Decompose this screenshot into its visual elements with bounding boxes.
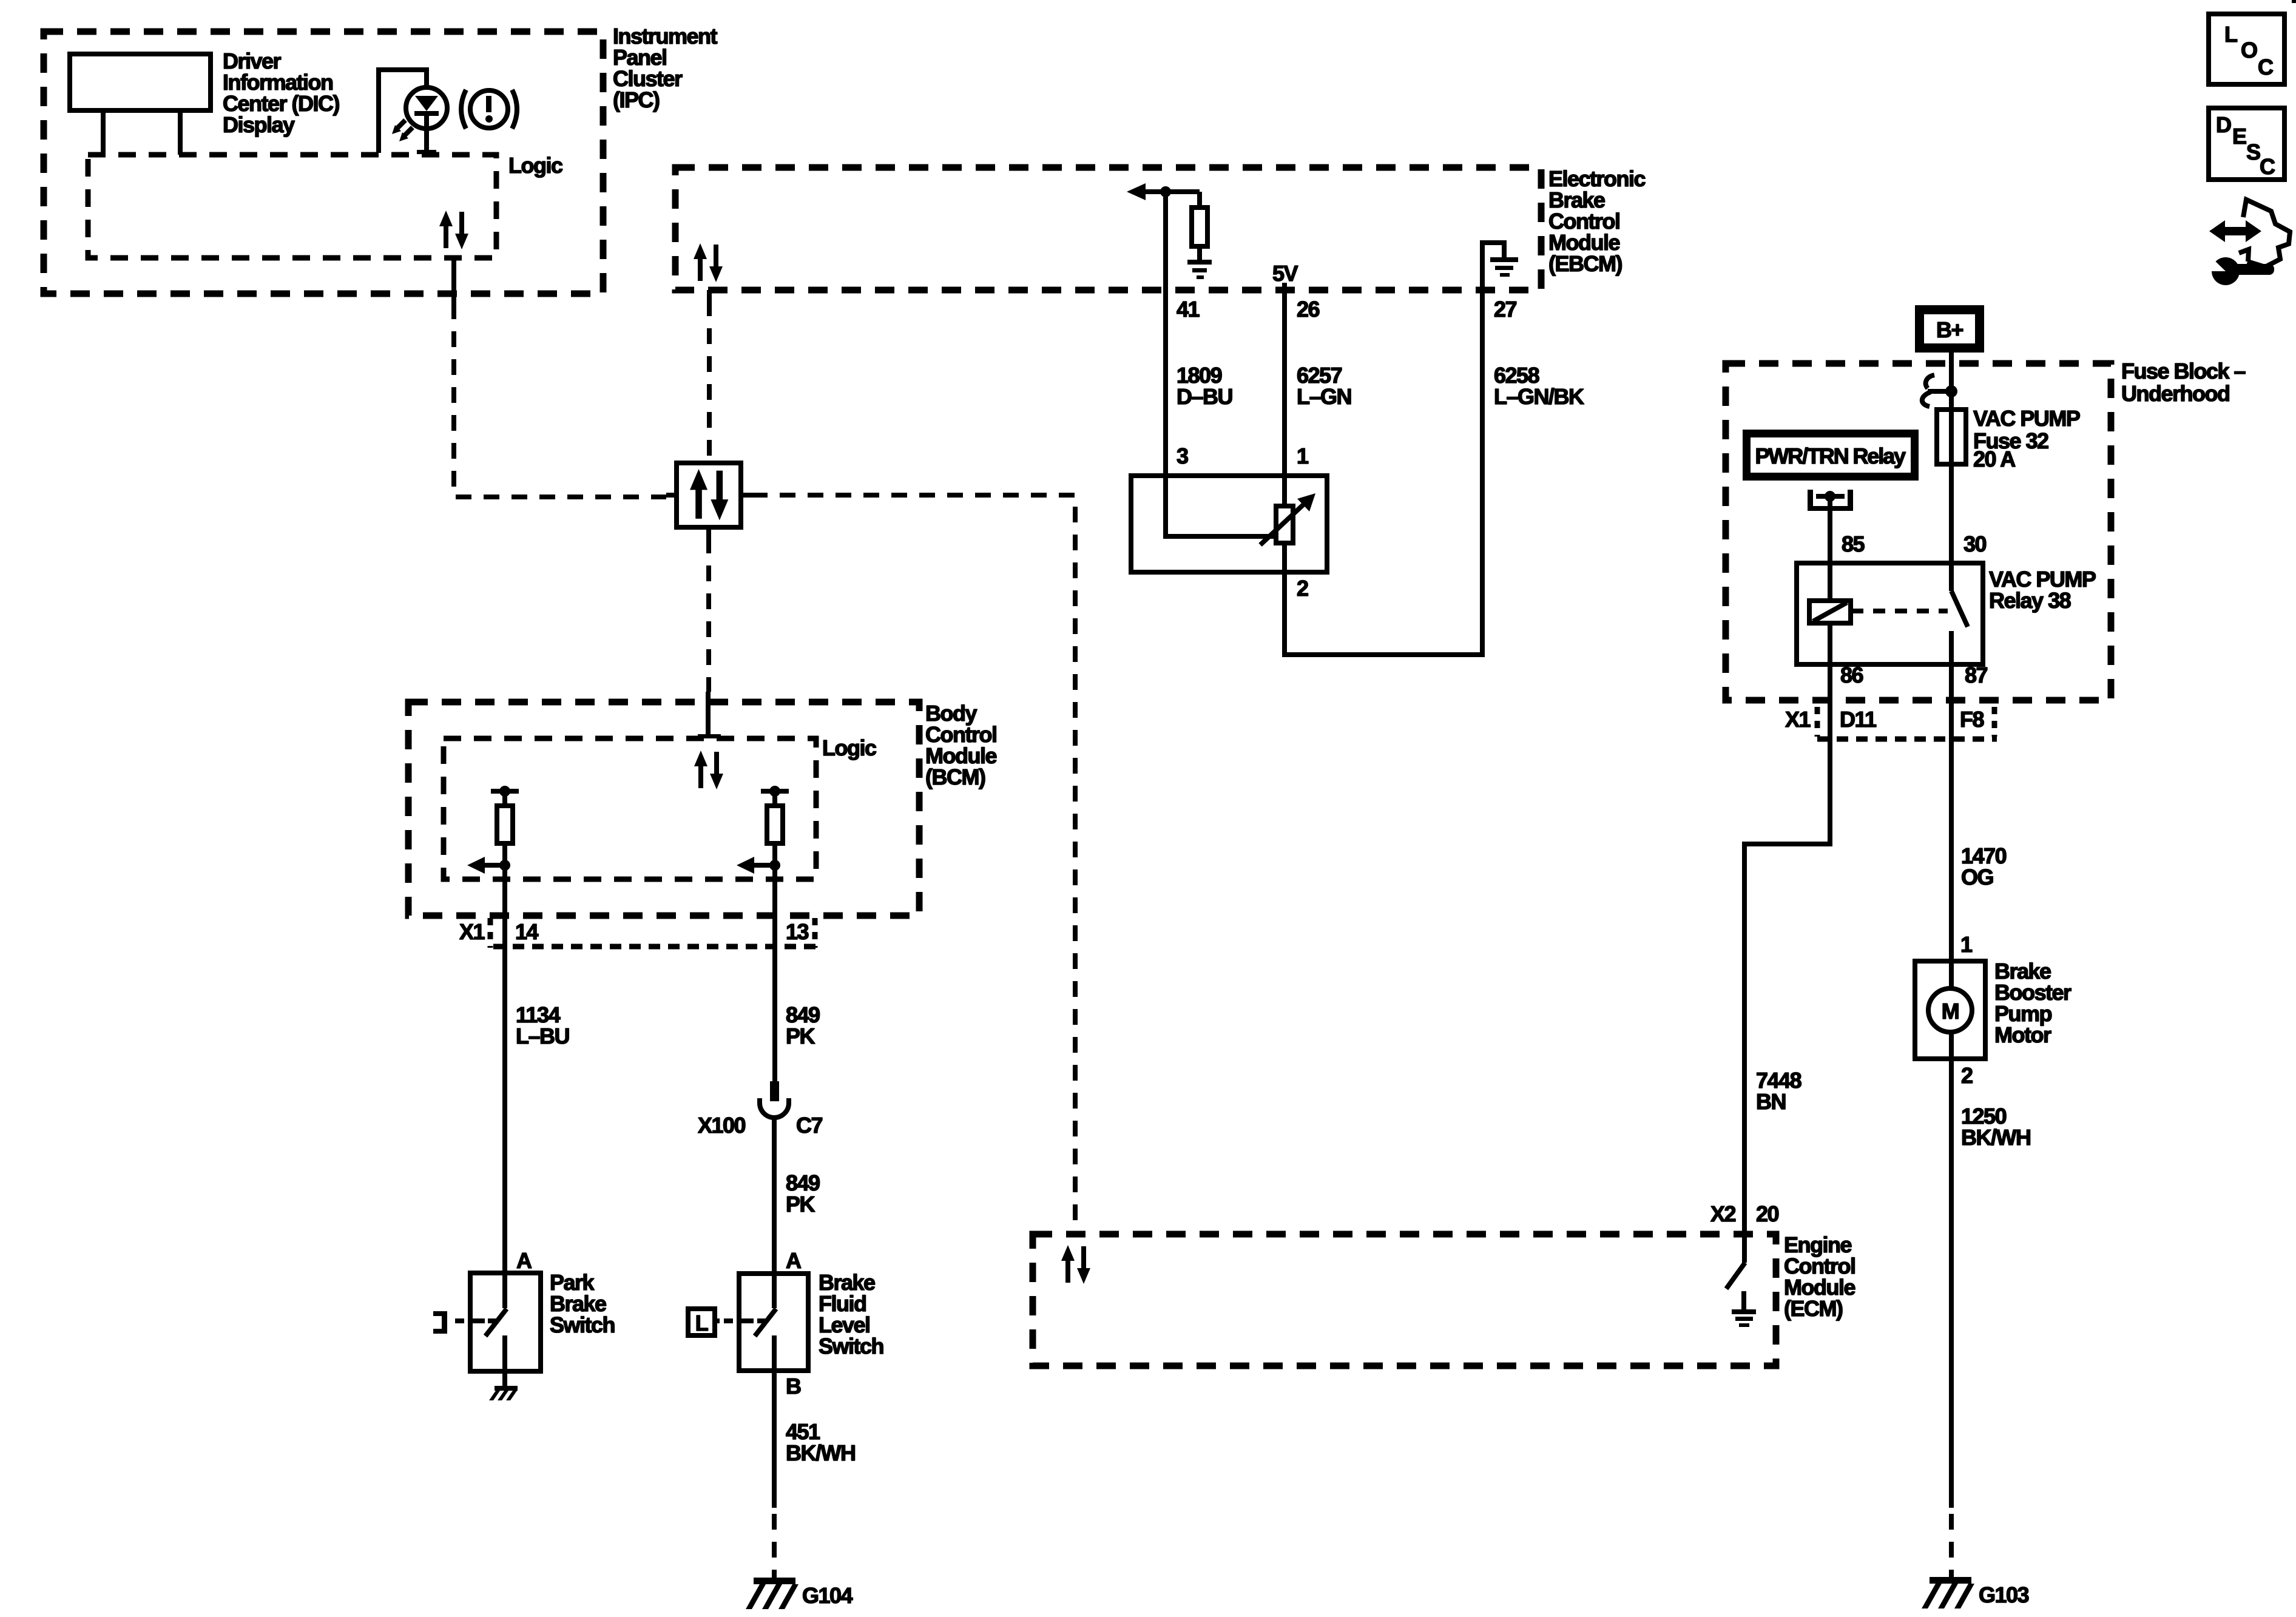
wire 6258 L-GN/BK (EBCM 27 to sensor 2) [1285,290,1482,655]
label 6258 L-GN/BK [1494,363,1584,409]
svg-text:Switch: Switch [550,1312,615,1337]
svg-text:L–GN/BK: L–GN/BK [1494,384,1584,409]
svg-text:D–BU: D–BU [1177,384,1232,409]
svg-text:A: A [786,1248,802,1273]
wire 1250 to G103 (dashed) [1949,1514,1954,1580]
wire 5V stub [1282,283,1287,290]
switch S2 Brake Fluid Level Switch [739,1274,808,1371]
svg-text:14: 14 [515,919,539,944]
fluid level symbol L-box [688,1309,733,1335]
svg-text:X2: X2 [1710,1201,1736,1226]
potentiometer sensor element [1260,493,1315,545]
wire serial data IPC to junction (dashed) [454,303,666,497]
svg-text:5V: 5V [1272,261,1298,286]
svg-text:G103: G103 [1979,1582,2029,1607]
svg-text:Logic: Logic [822,735,876,760]
svg-text:PK: PK [786,1192,815,1217]
svg-text:D11: D11 [1840,707,1877,732]
svg-text:G104: G104 [802,1583,853,1608]
svg-text:20 A: 20 A [1973,447,2016,471]
svg-text:2: 2 [1961,1063,1973,1088]
svg-text:(ECM): (ECM) [1784,1296,1843,1321]
wire EBCM pin 27 internal to ground [1482,243,1504,290]
svg-text:BK/WH: BK/WH [1961,1125,2030,1150]
module box ECM (Engine Control Module) [1033,1234,1776,1366]
label 1809 D-BU [1177,363,1232,409]
svg-text:27: 27 [1494,297,1517,322]
label VAC PUMP Fuse 32 20 A [1973,406,2080,471]
svg-text:L: L [2224,22,2237,47]
svg-text:E: E [2232,124,2246,149]
svg-text:2: 2 [1297,576,1308,601]
svg-text:87: 87 [1965,663,1988,687]
svg-text:C7: C7 [796,1113,822,1138]
svg-text:30: 30 [1963,532,1987,556]
connector X100 C7 inline [760,1081,789,1118]
label 849 PK (lower) [786,1170,820,1217]
svg-text:OG: OG [1961,865,1993,890]
wire EBCM serial data stub [707,290,712,300]
wire PWR/TRN to relay coil [1828,496,1832,601]
page corner mark [2292,0,2296,3]
svg-text:F8: F8 [1960,707,1984,732]
label 1134 L-BU [516,1002,569,1048]
svg-text:L: L [695,1311,708,1335]
svg-text:L–BU: L–BU [516,1024,569,1048]
svg-text:D: D [2216,112,2231,137]
wire 451 BK/WH [772,1371,777,1508]
serial data arrows IPC logic [439,211,468,249]
svg-text:PWR/TRN Relay: PWR/TRN Relay [1755,444,1906,468]
switch ECM low-side driver [1726,1234,1745,1289]
wire 1809 D-BU (EBCM 41 to sensor 3) [1163,192,1168,476]
svg-text:BK/WH: BK/WH [786,1440,855,1465]
icon DESC button [2209,108,2284,180]
ground EBCM internal (left) [1187,260,1212,279]
resistor BCM pull-up right [761,786,789,843]
relay actuator dashed link [1851,609,1948,613]
svg-text:3: 3 [1177,444,1188,468]
label Park Brake Switch [550,1270,615,1337]
wire LED supply loop [379,70,427,153]
label Brake Booster Pump Motor [1994,959,2071,1047]
wire 1134 L-BU (BCM 14 to park brake switch A) [502,843,507,1273]
label 1250 BK/WH [1961,1104,2030,1150]
svg-text:C: C [2260,154,2275,179]
svg-text:20: 20 [1756,1201,1779,1226]
label Body Control Module (BCM) [925,701,996,789]
svg-text:41: 41 [1177,297,1200,322]
wire 1250 BK/WH [1949,1059,1954,1508]
svg-text:86: 86 [1840,663,1863,687]
LED emission arrows [392,120,413,141]
power feed B+ [1915,305,1984,353]
wire 6257 L-GN (EBCM 26 to sensor 1) [1282,290,1287,507]
icon brake warning ((!)) [461,90,517,129]
fuse F32 VAC PUMP Fuse 32 20A [1937,410,1966,464]
serial data arrows EBCM [694,243,723,282]
label Brake Fluid Level Switch [819,1270,883,1359]
logic box BCM Logic [444,738,816,879]
label 451 BK/WH [786,1419,855,1465]
switch S1 Park Brake Switch [470,1273,541,1386]
junction box serial data link [666,463,752,538]
svg-text:O: O [2241,38,2257,62]
wire IPC serial data stub [451,258,456,303]
module box BCM (Body Control Module) [408,702,919,916]
arrow BCM input left [467,857,510,874]
wire sensor internal pin 3 [1166,476,1276,536]
ground G104 [746,1578,799,1609]
arrow BCM input right [737,857,780,874]
relay feed PWR/TRN Relay [1743,430,1919,481]
logic box IPC Logic [88,155,496,258]
svg-text:X100: X100 [698,1113,746,1138]
motor M1 Brake Booster Pump Motor [1915,961,1985,1059]
relay coil [1809,601,1851,623]
svg-text:M: M [1942,999,1959,1024]
wire serial data junction to ECM (dashed) [752,495,1075,1232]
svg-text:Relay 38: Relay 38 [1989,588,2071,613]
svg-text:Switch: Switch [819,1334,883,1359]
svg-text:VAC PUMP: VAC PUMP [1973,406,2080,431]
svg-text:S: S [2246,140,2260,164]
label Instrument Panel Cluster (IPC) [613,24,718,112]
serial data arrows ECM [1061,1245,1090,1284]
ground ECM internal [1732,1291,1756,1327]
svg-text:1: 1 [1297,444,1309,468]
connector strip BCM X1 [490,918,816,948]
wire BCM serial data entry [698,692,721,738]
label 7448 BN [1756,1068,1801,1114]
sensor box (brake booster pressure sensor) [1131,476,1327,572]
ground EBCM internal (right) [1490,257,1518,277]
wire B+ to fuse [1949,353,1954,591]
relay K38 VAC PUMP Relay 38 [1797,563,1983,664]
module box Fuse Block Underhood [1726,363,2111,700]
svg-text:PK: PK [786,1024,815,1048]
svg-text:L–GN: L–GN [1297,384,1351,409]
label VAC PUMP Relay 38 [1989,567,2096,613]
svg-text:Underhood: Underhood [2121,381,2229,406]
icon jumper-wrench [2206,200,2290,285]
DIC display U1 (Driver Information Center Display) [70,54,211,155]
wire 849 PK (BCM 13 to X100) [772,843,777,1082]
node junction dot B+ bus [1945,385,1957,397]
bus bar curl symbol [1922,375,1946,407]
wire serial data EBCM to junction (dashed) [707,300,712,460]
svg-text:X1: X1 [1785,707,1811,732]
relay switch contact [1951,591,1968,664]
svg-text:B+: B+ [1936,317,1963,342]
svg-text:Motor: Motor [1994,1022,2051,1047]
label 1470 OG [1961,843,2007,890]
svg-text:26: 26 [1297,297,1320,322]
module box EBCM (Electronic Brake Control Module) [675,167,1541,290]
wire 1470 OG (relay 87 to motor 1) [1949,664,1954,961]
node junction dot pin 41 net [1160,186,1171,197]
wire serial data junction to BCM (dashed) [706,538,711,692]
svg-text:1: 1 [1960,932,1973,957]
bracket PWR/TRN relay output [1808,490,1853,511]
wire LED cathode T-bar on Logic box [417,150,436,154]
label Electronic Brake Control Module (EBCM) [1548,166,1646,276]
connector strip Fuse Block X1 [1817,707,1997,739]
wire 7448 BN (relay 86 to ECM X2-20) [1744,664,1830,1234]
icon LOC button [2209,14,2284,84]
svg-text:(BCM): (BCM) [925,765,985,789]
wire 451 to G104 (dashed) [772,1514,777,1580]
svg-text:Fuse Block –: Fuse Block – [2121,359,2246,383]
svg-text:Display: Display [223,112,295,137]
ground G103 [1922,1577,1974,1609]
module box IPC (Instrument Panel Cluster) [44,32,603,294]
label 6257 L-GN [1297,363,1351,409]
resistor BCM pull-up left [491,786,519,843]
ground park brake switch (chassis) [489,1386,518,1400]
label Driver Information Center (DIC) Display [223,49,340,137]
svg-text:13: 13 [786,919,809,944]
wire relay coil to pin 86 [1828,623,1832,664]
svg-text:BN: BN [1756,1089,1786,1114]
serial data arrows BCM [694,751,723,789]
svg-text:(IPC): (IPC) [613,87,660,112]
arrow EBCM output driver [1127,183,1200,200]
svg-text:85: 85 [1842,532,1865,556]
svg-text:A: A [516,1248,532,1273]
connector bracket park brake [433,1311,464,1334]
resistor EBCM pull-up [1192,192,1207,260]
svg-text:(EBCM): (EBCM) [1548,251,1622,276]
LED brake warning indicator [406,87,447,152]
wire 849 PK (X100 to fluid level switch A) [772,1118,777,1274]
label Engine Control Module (ECM) [1784,1232,1855,1321]
label 849 PK (upper) [786,1002,820,1048]
svg-text:B: B [786,1374,801,1399]
svg-text:C: C [2258,55,2274,79]
svg-text:Logic: Logic [508,153,562,178]
svg-text:X1: X1 [459,919,485,944]
label Fuse Block - Underhood [2121,359,2246,406]
